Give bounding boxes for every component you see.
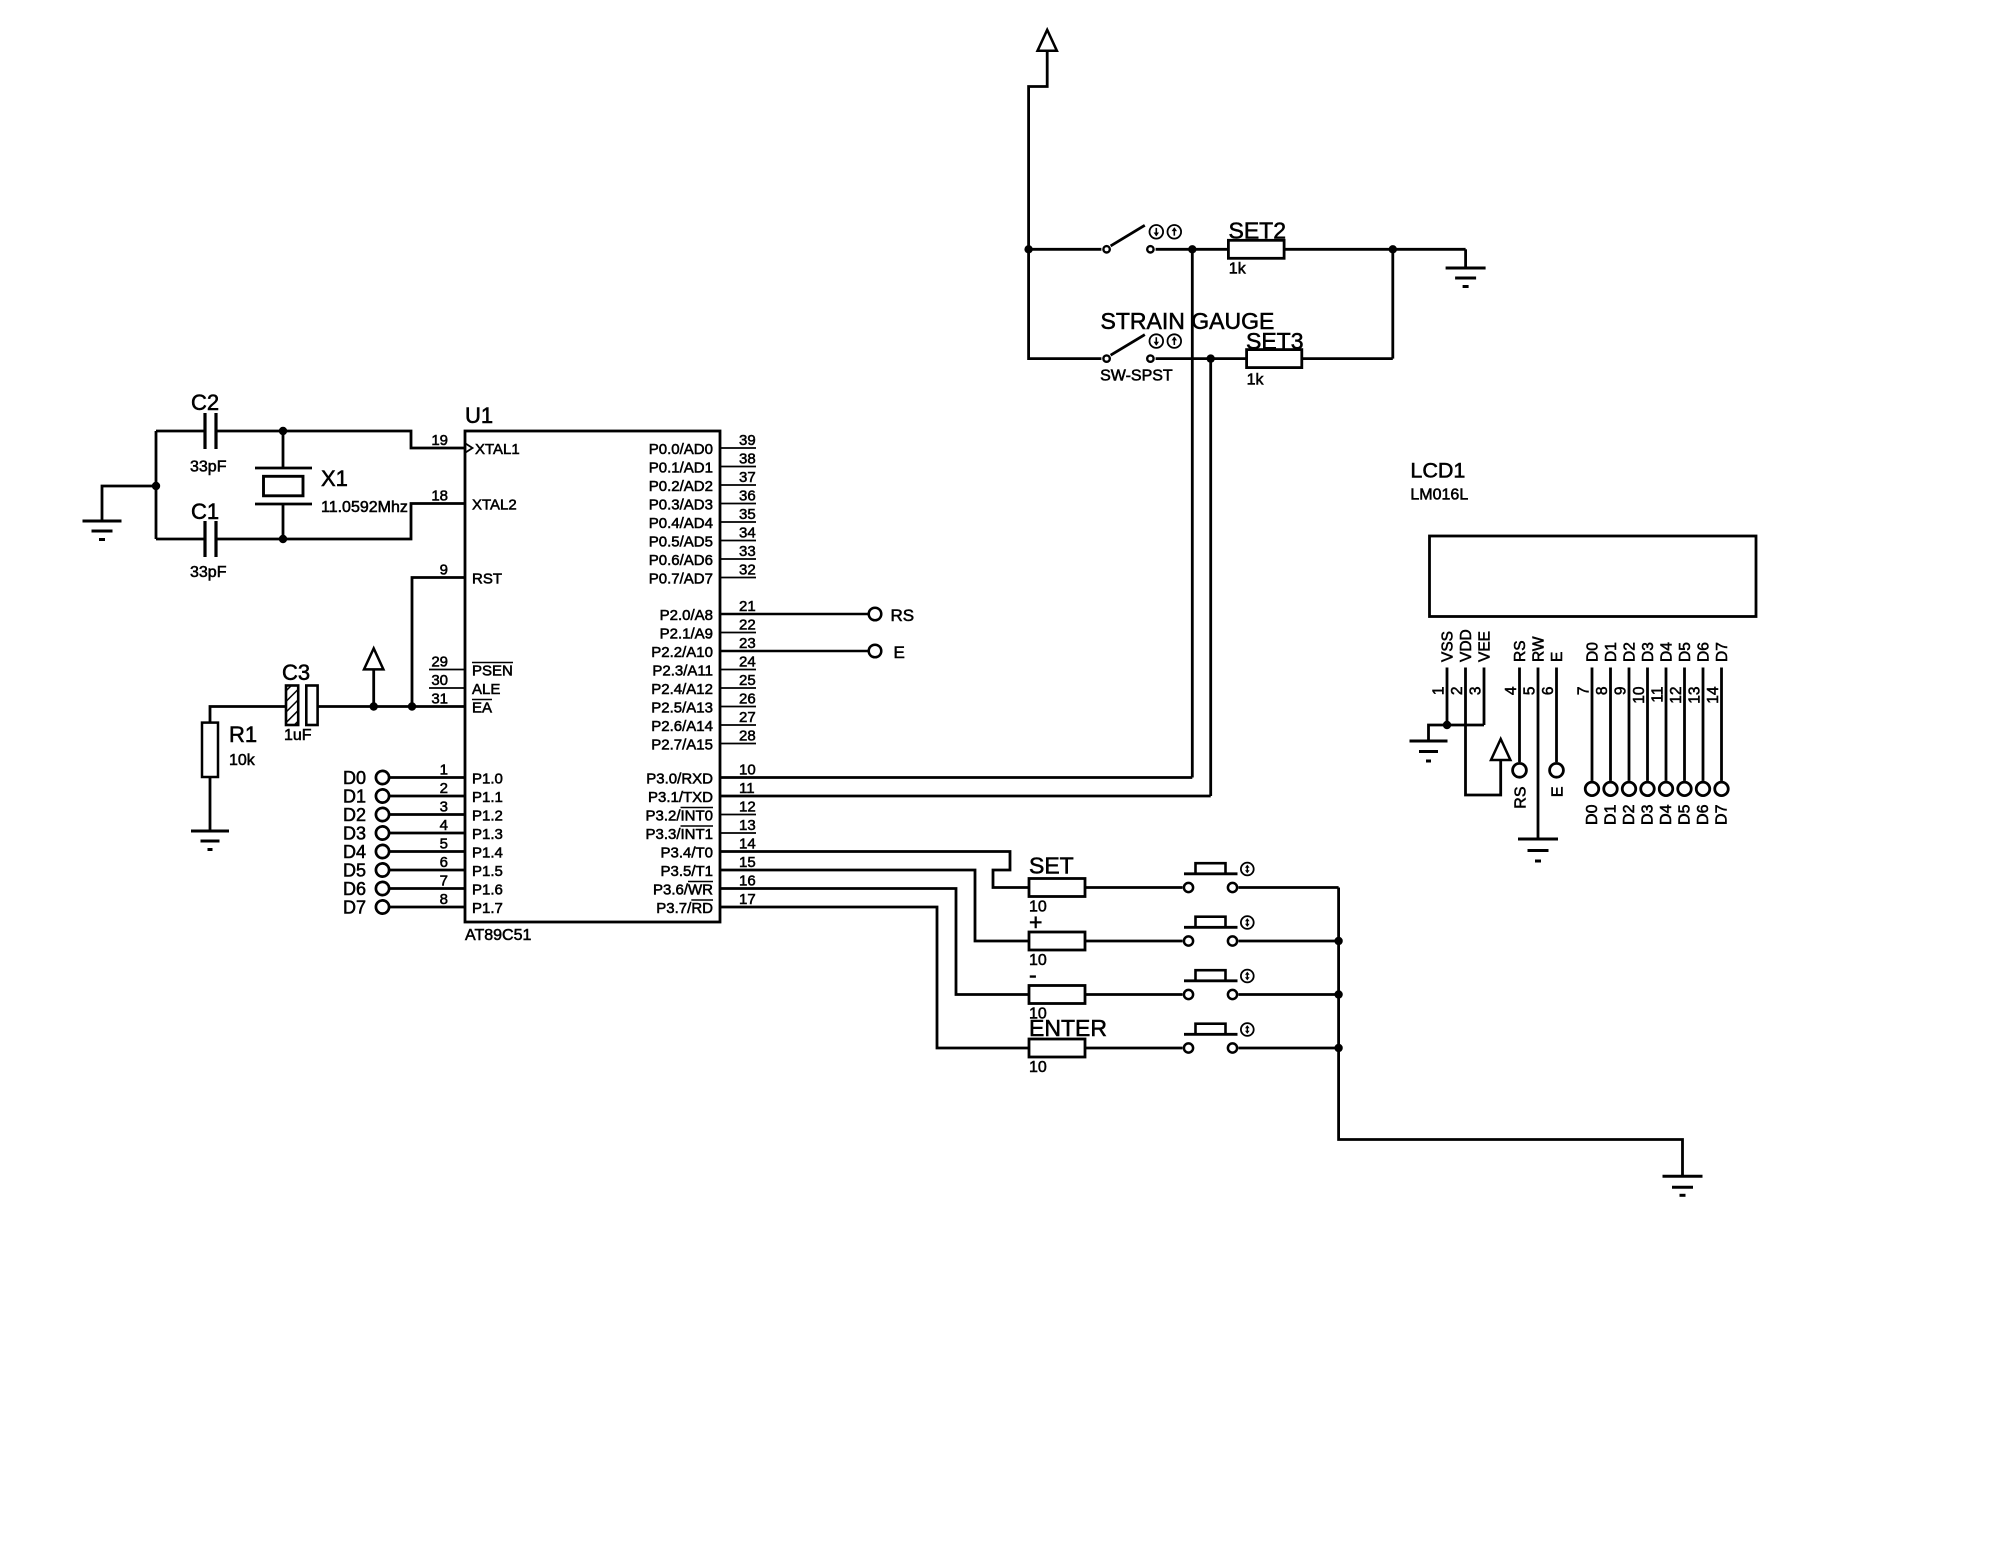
svg-text:14: 14 [1705, 686, 1722, 704]
svg-text:5: 5 [440, 836, 448, 853]
svg-text:P2.0/A8: P2.0/A8 [660, 607, 713, 624]
svg-text:7: 7 [1576, 687, 1593, 696]
svg-text:D3: D3 [1640, 642, 1657, 662]
svg-text:D5: D5 [1677, 642, 1694, 662]
svg-text:LCD1: LCD1 [1410, 459, 1465, 483]
svg-text:12: 12 [1668, 687, 1685, 704]
svg-text:4: 4 [440, 817, 448, 834]
svg-text:PSEN: PSEN [472, 663, 513, 680]
svg-text:P0.1/AD1: P0.1/AD1 [649, 460, 713, 477]
svg-text:VEE: VEE [1477, 631, 1494, 662]
svg-text:10: 10 [1631, 686, 1648, 704]
svg-text:P1.3: P1.3 [472, 826, 503, 843]
svg-text:P3.2/INT0: P3.2/INT0 [645, 808, 713, 825]
svg-text:24: 24 [739, 654, 756, 671]
svg-text:D5: D5 [343, 861, 366, 881]
svg-text:7: 7 [440, 873, 448, 890]
svg-text:9: 9 [1613, 687, 1630, 696]
svg-text:6: 6 [1540, 687, 1557, 696]
svg-text:5: 5 [1522, 687, 1539, 696]
svg-text:C2: C2 [191, 390, 219, 415]
svg-text:19: 19 [431, 432, 448, 449]
svg-text:32: 32 [739, 562, 756, 579]
svg-text:D5: D5 [1677, 804, 1694, 825]
svg-text:D7: D7 [1714, 642, 1731, 662]
svg-text:26: 26 [739, 691, 756, 708]
svg-text:P0.0/AD0: P0.0/AD0 [649, 441, 713, 458]
svg-text:13: 13 [739, 817, 756, 834]
svg-text:RS: RS [1513, 787, 1530, 809]
svg-text:D7: D7 [1714, 804, 1731, 825]
svg-text:P1.5: P1.5 [472, 863, 503, 880]
svg-text:P3.1/TXD: P3.1/TXD [648, 789, 713, 806]
svg-text:33pF: 33pF [190, 459, 227, 476]
svg-text:P0.3/AD3: P0.3/AD3 [649, 497, 713, 514]
svg-text:D4: D4 [343, 842, 366, 862]
svg-text:D6: D6 [1696, 642, 1713, 662]
svg-text:15: 15 [739, 854, 756, 871]
svg-text:3: 3 [1468, 687, 1485, 696]
svg-text:13: 13 [1687, 687, 1704, 704]
svg-text:SET2: SET2 [1229, 217, 1287, 243]
svg-text:XTAL2: XTAL2 [472, 497, 517, 514]
svg-text:D6: D6 [343, 879, 366, 899]
svg-text:8: 8 [440, 891, 448, 908]
svg-text:P1.0: P1.0 [472, 771, 503, 788]
svg-text:D4: D4 [1658, 804, 1675, 825]
svg-text:2: 2 [1449, 687, 1466, 696]
svg-text:P1.7: P1.7 [472, 900, 503, 917]
svg-text:EA: EA [472, 700, 492, 717]
svg-text:33pF: 33pF [190, 564, 227, 581]
svg-text:31: 31 [431, 691, 448, 708]
svg-text:22: 22 [739, 617, 756, 634]
svg-text:D6: D6 [1695, 804, 1712, 825]
svg-text:10k: 10k [229, 752, 256, 769]
svg-text:D3: D3 [1640, 804, 1657, 825]
svg-text:23: 23 [739, 635, 756, 652]
svg-text:P0.6/AD6: P0.6/AD6 [649, 552, 713, 569]
svg-text:P2.2/A10: P2.2/A10 [651, 644, 713, 661]
svg-text:VDD: VDD [1458, 629, 1475, 662]
svg-text:E: E [1549, 652, 1566, 662]
svg-text:17: 17 [739, 891, 756, 908]
svg-text:1uF: 1uF [284, 727, 312, 744]
svg-text:AT89C51: AT89C51 [465, 927, 532, 944]
svg-text:RW: RW [1531, 636, 1548, 662]
svg-text:D2: D2 [1621, 804, 1638, 825]
svg-text:P0.4/AD4: P0.4/AD4 [649, 515, 713, 532]
svg-text:D2: D2 [1622, 642, 1639, 662]
svg-text:P3.3/INT1: P3.3/INT1 [645, 826, 713, 843]
svg-text:P3.7/RD: P3.7/RD [656, 900, 713, 917]
svg-text:LM016L: LM016L [1410, 487, 1468, 504]
svg-text:X1: X1 [321, 466, 348, 491]
svg-text:33: 33 [739, 543, 756, 560]
svg-text:P3.6/WR: P3.6/WR [653, 882, 713, 899]
svg-text:34: 34 [739, 525, 756, 542]
svg-text:ALE: ALE [472, 681, 500, 698]
svg-text:D7: D7 [343, 898, 366, 918]
svg-text:D0: D0 [343, 768, 366, 788]
svg-text:1: 1 [1431, 687, 1448, 696]
svg-text:11: 11 [1650, 687, 1667, 703]
svg-text:D1: D1 [343, 787, 366, 807]
svg-text:VSS: VSS [1440, 631, 1457, 662]
svg-text:R1: R1 [229, 722, 257, 747]
svg-text:P3.4/T0: P3.4/T0 [660, 845, 713, 862]
svg-text:C3: C3 [282, 660, 310, 685]
svg-text:P1.6: P1.6 [472, 882, 503, 899]
svg-text:E: E [1550, 787, 1567, 798]
svg-text:1k: 1k [1229, 261, 1247, 278]
svg-text:39: 39 [739, 432, 756, 449]
svg-text:D2: D2 [343, 805, 366, 825]
svg-text:6: 6 [440, 854, 448, 871]
svg-text:16: 16 [739, 873, 756, 890]
svg-text:D4: D4 [1659, 642, 1676, 662]
svg-text:D1: D1 [1603, 804, 1620, 825]
svg-text:P0.7/AD7: P0.7/AD7 [649, 571, 713, 588]
svg-text:-: - [1029, 962, 1037, 988]
svg-text:14: 14 [739, 836, 756, 853]
svg-text:RS: RS [891, 606, 915, 625]
svg-text:37: 37 [739, 469, 756, 486]
svg-text:SW-SPST: SW-SPST [1100, 368, 1173, 385]
svg-text:P2.3/A11: P2.3/A11 [652, 663, 713, 680]
svg-text:P1.1: P1.1 [472, 789, 503, 806]
svg-text:SET: SET [1029, 853, 1074, 879]
svg-text:D3: D3 [343, 824, 366, 844]
svg-text:P2.7/A15: P2.7/A15 [651, 737, 713, 754]
svg-text:C1: C1 [191, 499, 219, 524]
svg-text:P2.5/A13: P2.5/A13 [651, 700, 713, 717]
svg-text:1: 1 [440, 762, 448, 779]
svg-text:D0: D0 [1584, 804, 1601, 825]
svg-text:8: 8 [1594, 687, 1611, 696]
svg-text:P1.4: P1.4 [472, 845, 503, 862]
svg-text:P3.0/RXD: P3.0/RXD [646, 771, 713, 788]
svg-text:10: 10 [1029, 1059, 1047, 1076]
svg-text:P2.1/A9: P2.1/A9 [660, 626, 713, 643]
svg-text:P1.2: P1.2 [472, 808, 503, 825]
svg-text:27: 27 [739, 709, 756, 726]
svg-text:ENTER: ENTER [1029, 1015, 1107, 1041]
svg-text:38: 38 [739, 451, 756, 468]
svg-text:28: 28 [739, 728, 756, 745]
svg-text:RS: RS [1512, 640, 1529, 662]
svg-text:XTAL1: XTAL1 [475, 441, 520, 458]
svg-text:P3.5/T1: P3.5/T1 [660, 863, 713, 880]
svg-text:1k: 1k [1247, 371, 1265, 388]
svg-text:4: 4 [1503, 686, 1520, 695]
svg-text:D1: D1 [1603, 642, 1620, 662]
svg-text:30: 30 [431, 672, 448, 689]
svg-text:18: 18 [431, 488, 448, 505]
svg-text:U1: U1 [465, 403, 493, 428]
svg-text:11.0592Mhz: 11.0592Mhz [321, 499, 408, 516]
svg-text:STRAIN GAUGE: STRAIN GAUGE [1101, 308, 1275, 334]
svg-text:12: 12 [739, 799, 756, 816]
svg-text:D0: D0 [1585, 642, 1602, 662]
svg-text:RST: RST [472, 571, 502, 588]
svg-text:25: 25 [739, 672, 756, 689]
svg-text:P0.5/AD5: P0.5/AD5 [649, 534, 713, 551]
svg-text:3: 3 [440, 799, 448, 816]
svg-text:9: 9 [440, 562, 448, 579]
svg-text:29: 29 [431, 654, 448, 671]
svg-text:36: 36 [739, 488, 756, 505]
svg-text:2: 2 [440, 780, 448, 797]
svg-text:P2.6/A14: P2.6/A14 [651, 718, 713, 735]
svg-text:P0.2/AD2: P0.2/AD2 [649, 478, 713, 495]
svg-text:10: 10 [739, 762, 756, 779]
svg-text:21: 21 [739, 598, 756, 615]
svg-text:11: 11 [739, 780, 755, 797]
svg-text:P2.4/A12: P2.4/A12 [651, 681, 713, 698]
svg-text:35: 35 [739, 506, 756, 523]
svg-text:+: + [1029, 909, 1042, 935]
svg-text:E: E [894, 643, 905, 662]
